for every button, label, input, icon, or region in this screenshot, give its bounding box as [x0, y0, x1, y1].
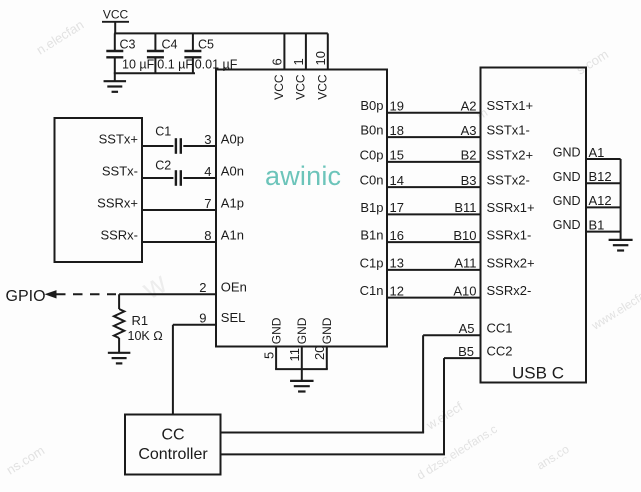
svg-text:5: 5: [261, 352, 276, 359]
svg-text:R1: R1: [132, 313, 149, 328]
svg-text:8: 8: [204, 228, 211, 243]
svg-text:B0p: B0p: [360, 98, 383, 113]
svg-text:SSTx-: SSTx-: [102, 163, 138, 178]
svg-text:20: 20: [312, 346, 327, 360]
svg-text:C2: C2: [155, 159, 171, 173]
svg-text:6: 6: [270, 58, 285, 65]
svg-text:C3: C3: [120, 38, 136, 52]
svg-text:awinic: awinic: [265, 161, 341, 191]
svg-text:C1p: C1p: [360, 255, 384, 270]
svg-text:VCC: VCC: [316, 74, 330, 100]
svg-text:B3: B3: [461, 173, 477, 188]
svg-text:SSRx1+: SSRx1+: [487, 200, 535, 215]
svg-text:15: 15: [390, 148, 404, 163]
svg-text:C4: C4: [162, 38, 178, 52]
svg-text:B1n: B1n: [360, 228, 383, 243]
svg-text:A12: A12: [589, 193, 612, 208]
svg-text:A3: A3: [461, 123, 477, 138]
svg-text:SSRx2+: SSRx2+: [487, 255, 535, 270]
svg-text:GND: GND: [553, 170, 581, 184]
svg-text:A2: A2: [461, 99, 477, 114]
svg-text:B2: B2: [461, 148, 477, 163]
svg-text:SSRx1-: SSRx1-: [487, 228, 532, 243]
svg-text:12: 12: [390, 283, 404, 298]
svg-text:0.01 µF: 0.01 µF: [195, 58, 238, 72]
svg-text:B11: B11: [454, 200, 476, 215]
svg-text:1: 1: [291, 58, 306, 65]
svg-text:A0p: A0p: [221, 131, 244, 146]
svg-text:9: 9: [199, 311, 206, 326]
svg-text:GND: GND: [553, 194, 581, 208]
svg-text:A1p: A1p: [221, 195, 244, 210]
svg-text:CC: CC: [161, 427, 184, 444]
svg-text:SSRx-: SSRx-: [100, 227, 138, 242]
svg-text:SSTx1-: SSTx1-: [487, 123, 530, 138]
svg-text:SSTx2-: SSTx2-: [487, 173, 530, 188]
svg-text:19: 19: [390, 99, 404, 114]
svg-text:B5: B5: [458, 344, 474, 359]
svg-text:B1p: B1p: [360, 200, 383, 215]
svg-text:SSTx1+: SSTx1+: [487, 98, 534, 113]
svg-text:11: 11: [287, 348, 302, 362]
svg-text:SSRx2-: SSRx2-: [487, 283, 532, 298]
svg-text:7: 7: [204, 196, 211, 211]
svg-text:SSTx2+: SSTx2+: [487, 147, 534, 162]
svg-text:VCC: VCC: [272, 74, 286, 100]
svg-text:A5: A5: [459, 321, 475, 336]
svg-text:VCC: VCC: [294, 74, 308, 100]
svg-text:C1n: C1n: [360, 283, 384, 298]
svg-text:C1: C1: [155, 125, 171, 139]
svg-text:13: 13: [390, 256, 404, 271]
svg-text:17: 17: [390, 200, 404, 215]
svg-text:C0p: C0p: [360, 147, 384, 162]
svg-text:2: 2: [199, 280, 206, 295]
svg-text:CC2: CC2: [487, 344, 513, 359]
svg-text:B12: B12: [589, 169, 612, 184]
svg-text:3: 3: [204, 132, 211, 147]
svg-text:10K Ω: 10K Ω: [128, 329, 163, 343]
svg-text:A10: A10: [453, 283, 476, 298]
svg-text:SSTx+: SSTx+: [99, 131, 138, 146]
svg-text:C0n: C0n: [360, 173, 384, 188]
svg-text:GPIO: GPIO: [6, 288, 46, 305]
svg-text:B10: B10: [453, 228, 476, 243]
svg-text:4: 4: [204, 164, 211, 179]
svg-text:18: 18: [390, 123, 404, 138]
svg-text:GND: GND: [553, 146, 581, 160]
svg-text:GND: GND: [553, 218, 581, 232]
svg-text:USB C: USB C: [512, 364, 564, 383]
svg-text:10 µF: 10 µF: [122, 58, 155, 72]
svg-text:16: 16: [390, 228, 404, 243]
svg-text:SSRx+: SSRx+: [97, 195, 138, 210]
svg-text:B1: B1: [589, 217, 605, 232]
svg-text:B0n: B0n: [360, 123, 383, 138]
svg-text:GND: GND: [320, 317, 334, 344]
svg-text:10: 10: [313, 51, 328, 65]
svg-text:GND: GND: [295, 317, 309, 344]
svg-text:OEn: OEn: [221, 280, 247, 295]
svg-text:C5: C5: [198, 38, 214, 52]
svg-text:CC1: CC1: [487, 321, 513, 336]
svg-text:A11: A11: [454, 256, 476, 271]
svg-text:SEL: SEL: [221, 310, 246, 325]
svg-text:0.1 µF: 0.1 µF: [157, 58, 193, 72]
svg-text:A1n: A1n: [221, 227, 244, 242]
svg-text:VCC: VCC: [103, 8, 129, 22]
svg-text:A1: A1: [589, 145, 605, 160]
svg-text:14: 14: [390, 173, 404, 188]
svg-text:A0n: A0n: [221, 163, 244, 178]
svg-text:Controller: Controller: [138, 446, 208, 463]
svg-text:GND: GND: [269, 317, 283, 344]
